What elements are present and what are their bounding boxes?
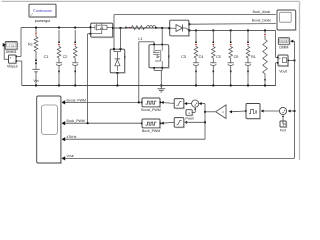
capacitor C3 label bbox=[181, 55, 186, 59]
node C5 tap bbox=[230, 29, 232, 31]
svg-text:50.04: 50.04 bbox=[281, 40, 288, 43]
node bus D2 bbox=[116, 85, 118, 87]
wire D2 m to rail bbox=[113, 28, 115, 49]
resistor RL label bbox=[251, 55, 256, 59]
pwm Buck_PWM label bbox=[142, 129, 160, 133]
wire v out bbox=[288, 59, 294, 61]
node bus C2 bbox=[74, 85, 76, 87]
mosfet Q2 (boost switch) block bbox=[149, 44, 169, 69]
wire Pwait to sum1 bbox=[192, 108, 195, 112]
wire top bus left bbox=[21, 27, 91, 29]
arrow into DMM bbox=[290, 40, 293, 43]
arrow into DMM1 bbox=[3, 43, 6, 47]
constant Pwait label bbox=[185, 116, 193, 120]
diode D3 (boost) block bbox=[168, 20, 190, 36]
node bus Vin bbox=[35, 85, 37, 87]
arrow Pref into sum2 bbox=[282, 115, 284, 117]
pwm generator Boost_PWM block bbox=[141, 98, 161, 107]
node bus C1 bbox=[58, 85, 60, 87]
svg-text:C3: C3 bbox=[181, 55, 186, 59]
inductor L1 bbox=[147, 26, 156, 28]
display DMM1 label bbox=[6, 50, 17, 54]
svg-text:Boost_Diode: Boost_Diode bbox=[252, 19, 272, 23]
resistor Rs bbox=[34, 37, 38, 52]
arrow Buck_PWM into scope1 bbox=[61, 121, 65, 125]
battery Vin bbox=[32, 69, 39, 72]
scope Scope2 block bbox=[277, 10, 296, 31]
wire Vout- to bus bbox=[276, 63, 278, 86]
inductor L1 label bbox=[138, 37, 142, 41]
arrow into source S1 bbox=[261, 109, 264, 112]
wire vout feedback down bbox=[294, 60, 296, 158]
voltmeter Vout block bbox=[277, 55, 289, 67]
resistor Rs label bbox=[28, 43, 33, 47]
capacitor C1 label bbox=[44, 55, 49, 59]
svg-text:+: + bbox=[279, 57, 281, 61]
label 47kHz wire bbox=[67, 135, 77, 139]
node C6 tap bbox=[247, 29, 249, 31]
node C4 tap bbox=[212, 29, 214, 31]
wire Q1 out bbox=[113, 27, 170, 29]
capacitor C1 branch bbox=[56, 30, 62, 86]
svg-text:Buck_diode: Buck_diode bbox=[253, 10, 271, 14]
node bus RL bbox=[264, 85, 266, 87]
svg-text:RL: RL bbox=[251, 55, 256, 59]
node bus C6 bbox=[247, 85, 249, 87]
svg-text:Buck_PWM: Buck_PWM bbox=[67, 119, 85, 123]
resistor R series bbox=[126, 26, 145, 30]
node C3 tap bbox=[195, 29, 197, 31]
wire Vinput+ to top bus bbox=[16, 28, 21, 57]
svg-text:DMM1: DMM1 bbox=[6, 50, 17, 54]
wire Buck_PWM to scope1 bbox=[64, 122, 142, 124]
constant Pwait block bbox=[186, 110, 193, 116]
wire output bus bbox=[189, 29, 275, 31]
constant Pref block bbox=[280, 121, 287, 128]
wire Boost_Diode rail bbox=[189, 23, 275, 26]
wire gain out bbox=[205, 111, 215, 113]
svg-text:DMM: DMM bbox=[279, 46, 288, 50]
arrow into BoostPWM bbox=[161, 101, 164, 104]
constant Pref label bbox=[280, 128, 286, 132]
svg-text:Buck_PWM: Buck_PWM bbox=[142, 129, 160, 133]
wire sensor to Vin bbox=[35, 63, 37, 69]
current sensor ports bbox=[35, 60, 37, 64]
wire Pref to sum2 bbox=[283, 116, 286, 125]
node bus C5 bbox=[230, 85, 232, 87]
node v junction bbox=[294, 59, 296, 61]
svg-text:-7.52: -7.52 bbox=[8, 45, 15, 48]
wire S1 to gain bbox=[230, 110, 246, 113]
svg-text:C5: C5 bbox=[216, 55, 221, 59]
wire Rs to sensor bbox=[35, 51, 37, 59]
mosfet Q1 (buck switch) block bbox=[90, 23, 114, 38]
arrow Buck_diode into scope bbox=[277, 13, 281, 17]
wire Q2 source to ground bbox=[154, 68, 162, 89]
capacitor C2 branch bbox=[72, 30, 78, 86]
svg-text:Vin: Vin bbox=[33, 79, 38, 83]
svg-text:-: - bbox=[13, 60, 14, 64]
arrow into BuckPWM bbox=[161, 122, 164, 125]
resistor RL branch bbox=[263, 30, 268, 85]
node bus C4 bbox=[212, 85, 214, 87]
wire Q2 drain bbox=[161, 28, 163, 44]
wire v to DMM bbox=[291, 41, 294, 60]
wire Vin to bus bbox=[35, 72, 37, 86]
source Vinput label bbox=[7, 65, 19, 69]
svg-text:Vout: Vout bbox=[279, 69, 288, 73]
wire vout to scope1 bbox=[64, 157, 295, 159]
svg-text:1: 1 bbox=[188, 111, 190, 115]
node buck gate junction bbox=[87, 122, 89, 124]
arrow carrier into scope1 bbox=[61, 137, 65, 141]
arrow Boost_Diode into scope bbox=[277, 22, 281, 26]
node vout to sum2 bbox=[294, 110, 296, 112]
svg-text:+: + bbox=[10, 56, 12, 60]
voltmeter Vout label bbox=[279, 69, 288, 73]
node Q2 bus junction bbox=[160, 85, 162, 87]
window top border bbox=[2, 0, 300, 2]
svg-text:Pref: Pref bbox=[280, 128, 286, 132]
wire D2 anode to bus bbox=[116, 73, 118, 86]
resistor Rs branch top bbox=[35, 28, 37, 37]
wire R to L1 bbox=[145, 27, 147, 29]
wire sum2 out bbox=[261, 110, 279, 112]
node Rs tap bbox=[35, 27, 37, 29]
svg-text:Boost_PWM: Boost_PWM bbox=[67, 98, 87, 102]
wire sum1 out bbox=[185, 103, 192, 105]
display DMM label bbox=[279, 46, 288, 50]
wire buck gate bbox=[88, 34, 91, 124]
wire output to Vout+ bbox=[276, 30, 278, 57]
node J2 bbox=[204, 111, 206, 113]
scope Scope1 block bbox=[37, 96, 62, 164]
wire Boost_PWM to scope1 bbox=[64, 101, 142, 103]
wire sat2 to BuckPWM bbox=[161, 121, 174, 124]
wire L1 to D3 bbox=[156, 27, 170, 29]
capacitor C6 label bbox=[234, 55, 239, 59]
wire Buck_diode rail bbox=[114, 15, 276, 28]
wire sat1 to BoostPWM bbox=[161, 102, 174, 105]
node sat2 tap bbox=[204, 121, 206, 123]
gain K block bbox=[216, 105, 226, 119]
node L1 end bbox=[155, 27, 157, 29]
powergui block bbox=[29, 4, 57, 17]
node RL tap bbox=[264, 29, 266, 31]
capacitor C3 branch bbox=[193, 30, 199, 86]
wire D2 cathode to wire bbox=[120, 28, 122, 49]
wire J2 to sat2 bbox=[185, 121, 205, 123]
wire to sum1 bbox=[199, 103, 205, 105]
label Boost_Diode bbox=[252, 19, 272, 23]
battery Vin label bbox=[33, 79, 38, 83]
capacitor C5 label bbox=[216, 55, 221, 59]
svg-text:Vinput: Vinput bbox=[7, 65, 19, 69]
arrow into gain bbox=[229, 110, 232, 113]
powergui label bbox=[35, 19, 51, 23]
svg-text:Pwait: Pwait bbox=[185, 116, 193, 120]
node Q2 drain tap bbox=[161, 27, 163, 29]
sum block S1c bbox=[192, 100, 199, 107]
svg-text:Continuous: Continuous bbox=[33, 9, 52, 13]
saturation Sat1 block bbox=[174, 99, 187, 109]
svg-text:Rs: Rs bbox=[28, 43, 33, 47]
source Vinput bbox=[9, 55, 18, 64]
node C2 tap bbox=[74, 27, 76, 29]
label Buck_diode bbox=[253, 10, 271, 14]
node boost gate junction bbox=[138, 101, 140, 103]
svg-text:C4: C4 bbox=[199, 55, 204, 59]
source S1 (duty) block bbox=[245, 104, 261, 120]
wire bottom bus bbox=[22, 85, 276, 87]
wire boost gate bbox=[139, 42, 154, 103]
svg-text:Boost_PWM: Boost_PWM bbox=[141, 108, 161, 112]
node D2 cathode tap bbox=[120, 27, 127, 29]
svg-text:Vout: Vout bbox=[67, 154, 74, 158]
arrow into sum2 bbox=[288, 109, 291, 112]
svg-text:powergui: powergui bbox=[35, 19, 51, 23]
display DMM bbox=[278, 38, 290, 45]
pwm generator Buck_PWM block bbox=[141, 119, 161, 128]
arrow Pwait into sum1 bbox=[194, 108, 196, 110]
pwm Boost_PWM label bbox=[141, 108, 161, 112]
svg-text:C2: C2 bbox=[63, 55, 68, 59]
capacitor C2 label bbox=[63, 55, 68, 59]
diode D2 block bbox=[110, 48, 125, 74]
svg-text:C1: C1 bbox=[44, 55, 49, 59]
arrow Boost_PWM into scope1 bbox=[61, 100, 65, 104]
capacitor C6 branch bbox=[245, 30, 251, 86]
node C1 tap bbox=[58, 27, 60, 29]
wire DMM1 input bbox=[4, 45, 8, 59]
capacitor C5 branch bbox=[228, 30, 234, 86]
saturation Sat2 block bbox=[174, 118, 187, 128]
arrow into sum1 bbox=[199, 102, 202, 105]
window right border bbox=[299, 1, 301, 160]
sum block S2 bbox=[279, 107, 286, 114]
label Vout wire bbox=[67, 154, 74, 158]
arrow Vout into scope1 bbox=[61, 156, 65, 160]
arrow into Q2 gate bbox=[153, 43, 155, 45]
svg-text:C6: C6 bbox=[234, 55, 239, 59]
svg-text:L1: L1 bbox=[138, 37, 142, 41]
capacitor C4 label bbox=[199, 55, 204, 59]
label Buck_PWM wire bbox=[67, 119, 85, 123]
node bus C3 bbox=[195, 85, 197, 87]
capacitor C4 branch bbox=[210, 30, 216, 86]
current arrow series bbox=[129, 27, 131, 29]
wire sum2 input bbox=[288, 110, 294, 112]
wire control vertical bbox=[204, 104, 206, 140]
display DMM1 bbox=[5, 42, 18, 50]
ground G1 bbox=[158, 89, 166, 92]
wire Vinput- to bottom bus bbox=[16, 61, 22, 86]
wire carrier to scope1 bbox=[64, 138, 205, 140]
label Boost_PWM wire bbox=[67, 98, 87, 102]
svg-text:47kHz: 47kHz bbox=[67, 135, 77, 139]
